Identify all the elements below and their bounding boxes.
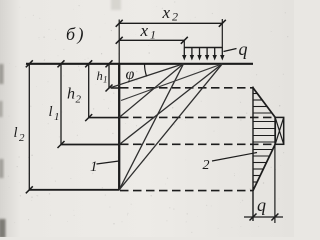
svg-text:x: x: [140, 21, 149, 40]
dimension h1: [106, 60, 113, 91]
level line h1 dashed: [120, 87, 253, 89]
svg-text:l: l: [14, 125, 18, 141]
scanner smudge left edge 1: [0, 64, 4, 84]
label 2 leader: [212, 153, 257, 162]
level line h1 solid segment: [111, 87, 120, 89]
load arrow 6: [220, 48, 224, 61]
svg-text:1: 1: [150, 28, 156, 42]
load arrow 3: [197, 48, 201, 61]
pressure diagram max edge: [274, 117, 276, 144]
scanner smudge left edge 3: [0, 159, 4, 178]
extension line at x1 right end: [183, 40, 185, 47]
scanner streak top: [111, 0, 121, 10]
pressure diagram base vertical: [252, 87, 254, 222]
scanner smudge bottom left corner: [0, 219, 6, 238]
svg-text:2: 2: [172, 10, 178, 24]
ground surface line: [26, 63, 253, 65]
fan line P1 to wall bottom: [119, 64, 183, 190]
dimension h2: [85, 60, 92, 121]
phi line from P1 to h1 point: [110, 64, 184, 88]
pressure diagram upper slant edge: [253, 88, 275, 118]
svg-text:1: 1: [103, 75, 108, 85]
dimension x2: [116, 20, 226, 27]
svg-text:1: 1: [54, 111, 60, 123]
bottom line l2 level dashed: [120, 190, 254, 192]
svg-text:1: 1: [90, 159, 98, 175]
leader for load label q: [224, 49, 237, 52]
distributed load q top line: [184, 47, 222, 49]
extension line above wall: [118, 20, 120, 65]
wall line: [118, 63, 120, 190]
pressure diagram lower slant edge: [253, 144, 275, 190]
svg-text:2: 2: [19, 132, 25, 144]
label 1 leader: [97, 161, 120, 164]
scanner smudge left edge 2: [0, 101, 3, 117]
dimension q bottom: [244, 214, 283, 221]
dimension l2: [26, 60, 33, 193]
extension line at x2 right end: [221, 19, 223, 48]
pressure diagram hatching: [253, 94, 275, 188]
load arrow 1: [182, 48, 186, 61]
svg-text:h: h: [67, 86, 75, 103]
load arrow 4: [205, 48, 209, 61]
fan line P1 to wall at h2 level: [119, 64, 183, 118]
svg-text:q: q: [257, 195, 266, 215]
fan line P2 to wall bottom: [119, 64, 222, 190]
dimension l1: [58, 60, 65, 148]
svg-text:2: 2: [203, 158, 210, 173]
crossed box: [275, 117, 284, 144]
svg-text:б): б): [66, 24, 86, 45]
level line l1 dashed: [120, 143, 275, 145]
svg-text:x: x: [162, 3, 171, 22]
svg-text:φ: φ: [126, 66, 135, 83]
level line h2 dashed: [120, 116, 275, 118]
bottom line l2 level solid: [29, 189, 119, 191]
fan line P2 to wall at l1 level: [119, 64, 222, 145]
svg-text:l: l: [49, 104, 53, 120]
svg-text:q: q: [239, 39, 248, 59]
level line h2 solid segment: [89, 117, 120, 119]
load arrow 2: [190, 48, 194, 61]
phi line from P2: [121, 64, 222, 101]
load arrow 5: [213, 48, 217, 61]
svg-text:2: 2: [76, 94, 82, 106]
svg-text:h: h: [97, 69, 103, 83]
level line l1 solid segment: [61, 144, 120, 146]
extension line below box: [274, 144, 276, 223]
angle phi arc: [145, 64, 147, 77]
dimension x1: [116, 37, 188, 44]
